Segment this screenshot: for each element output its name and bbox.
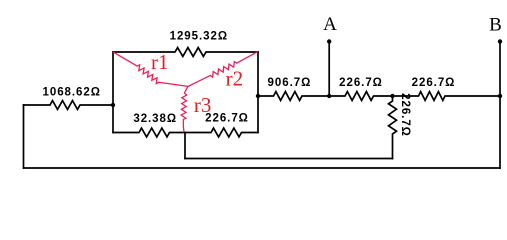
resistor 226.7ohm (box bottom right) — [185, 128, 258, 137]
resistor 226.7ohm (middle horizontal) — [329, 92, 392, 101]
svg-text:r3: r3 — [194, 93, 212, 117]
resistor 226.7ohm (right horizontal) — [393, 92, 501, 101]
svg-text:226.7Ω: 226.7Ω — [399, 93, 411, 137]
resistor 226.7ohm (vertical) — [389, 96, 397, 159]
wire: left vertical — [23, 105, 25, 168]
svg-text:32.38Ω: 32.38Ω — [133, 113, 177, 125]
junction B-wire — [498, 94, 502, 98]
resistor 32.38ohm (box bottom left) — [113, 128, 185, 137]
junction vres-top — [390, 94, 394, 98]
svg-text:1295.32Ω: 1295.32Ω — [170, 31, 228, 43]
box left edge (wire) — [112, 52, 114, 133]
junction box-right — [256, 94, 260, 98]
svg-text:226.7Ω: 226.7Ω — [412, 77, 456, 89]
svg-text:226.7Ω: 226.7Ω — [205, 113, 249, 125]
resistor r3 (red, from Y centre down to box bottom edge) — [181, 86, 188, 132]
svg-text:B: B — [489, 15, 502, 36]
box right edge (wire) — [257, 52, 259, 133]
resistor 906.7ohm — [258, 92, 329, 101]
resistor r2 (red, from box top-right corner to Y centre) — [188, 52, 258, 87]
wire: r3 drop below box — [184, 133, 186, 159]
svg-text:r2: r2 — [226, 66, 244, 90]
junction left — [111, 103, 115, 107]
svg-text:A: A — [323, 14, 337, 35]
resistor r1 (red, from box top-left corner to Y centre) — [113, 52, 188, 87]
resistor 1295.32ohm (box top edge) — [113, 48, 258, 57]
svg-text:906.7Ω: 906.7Ω — [268, 77, 312, 89]
wire: inner bottom — [185, 158, 393, 160]
svg-text:1068.62Ω: 1068.62Ω — [43, 86, 101, 98]
node B terminal — [499, 42, 501, 169]
svg-text:226.7Ω: 226.7Ω — [339, 77, 383, 89]
junction A-wire — [327, 94, 331, 98]
node A terminal — [328, 42, 330, 97]
wire: outer bottom — [24, 167, 501, 169]
svg-text:r1: r1 — [151, 50, 169, 74]
resistor 1068.62ohm (left horizontal) — [24, 101, 114, 110]
